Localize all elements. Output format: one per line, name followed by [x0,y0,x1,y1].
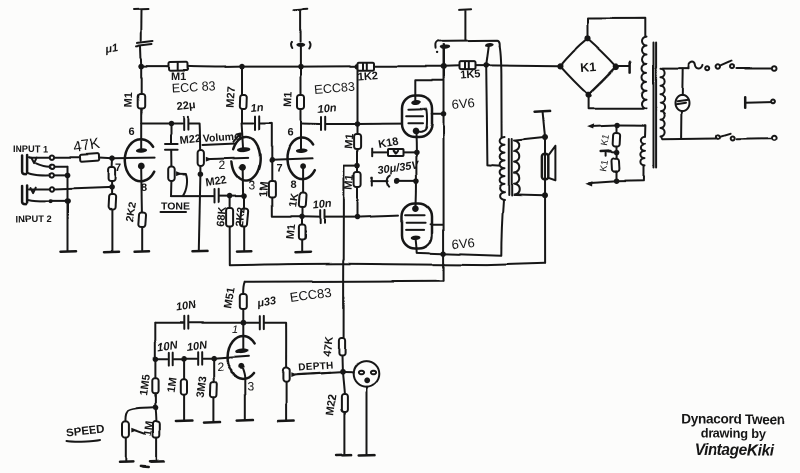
speed wire curve [125,408,155,422]
heater feed arrow top [590,125,617,126]
V1b grid [207,158,248,159]
resistor M1 (V2a plate) [300,67,302,95]
6V6#1 plate wire [415,80,443,101]
wire cap to volume pot [189,124,200,151]
node osc plate [241,320,247,326]
V2b anode [242,325,244,349]
capacitor M22 (tone) [215,189,219,202]
jack 2 [23,185,28,204]
node depth/XLR [340,369,346,375]
transformer core [654,43,657,168]
resistor M1 (below 1K) [301,217,303,225]
triode V2b envelope [228,336,255,379]
resistor 1M speed [155,408,158,422]
node K18 right [414,150,420,156]
ground bar [61,250,77,253]
heater top lead [617,125,645,136]
V2a grid [272,159,313,160]
bridge top lead [588,18,645,36]
resistor 47K trem [339,338,345,356]
capacitor 10n (top) [301,123,320,126]
wire depth pot bottom [285,382,287,419]
node hum center [614,149,620,155]
feedthrough connector [296,42,305,46]
node osc grid [211,356,217,362]
node divider mid [355,163,361,169]
svg-text:3: 3 [249,178,256,192]
svg-text:68K: 68K [215,206,229,227]
triode V1b envelope [232,137,260,181]
6V6#2 anode cap [413,205,420,212]
ground bar [204,421,220,424]
ground return vertical [67,166,69,250]
jack2 sleeve contact [48,199,52,203]
wire bus segment [188,65,358,68]
resistor 1K5 [459,62,475,70]
wire 10n to 6V6#2 grid [326,216,399,218]
wire divider to trem line [344,166,358,338]
svg-text:8: 8 [141,182,147,194]
node decouple [355,121,361,127]
resistor K1 hum lower [616,152,618,158]
ground bar [237,250,251,253]
node 10n lower [355,214,361,220]
capacitor 1n [242,123,254,125]
svg-text:INPUT 1: INPUT 1 [13,144,49,154]
V1b anode [242,124,243,148]
svg-text:ECC83: ECC83 [289,284,333,305]
ground bar [193,250,208,253]
bridge bottom lead [588,97,643,109]
resistor 2K2 (V1a cathode) [138,212,146,227]
screen feed vertical [443,45,445,281]
svg-text:10N: 10N [186,339,209,354]
OT core [509,139,512,195]
OT secondary winding [514,141,519,195]
OT primary bottom lead [501,200,503,256]
mains switch upper [716,65,720,69]
node V1a plate [168,121,174,127]
jack1 tip contact [50,155,54,159]
speed pot bottom [125,438,127,461]
solder blob left [440,44,450,49]
node V1b cathode [241,193,247,199]
6V6#2 cathode [411,235,421,240]
svg-text:3M3: 3M3 [195,376,210,399]
capacitor 10N phase 1 [155,358,167,360]
OT secondary leads [516,137,546,195]
svg-text:K1: K1 [598,159,611,172]
heater bottom lead [617,165,644,180]
svg-text:M1: M1 [283,91,296,107]
svg-text:10N: 10N [175,299,198,314]
6V6#1 cathode wire [415,133,417,152]
XLR left lead [345,371,354,373]
node 30μ right [414,178,420,184]
svg-text:1M: 1M [258,181,271,197]
pilot lamp [675,95,689,111]
V2b grid [214,356,249,358]
wire bus segment [475,65,486,67]
V1a grid [112,157,155,160]
resistor 1M phase [183,359,185,380]
bridge rectifier K1 [560,39,616,95]
svg-text:M1: M1 [343,174,356,190]
XLR socket [353,361,379,387]
6V6#1 grid structure [406,109,427,132]
pentode 6V6 no.1 envelope [402,96,432,138]
svg-text:30μ/35V: 30μ/35V [377,159,421,177]
resistor M1 (divider upper) [357,124,359,134]
wire cathode chain [415,152,417,206]
fuse [688,62,703,69]
HT bracket [435,41,499,49]
6V6#2 screen stub [431,223,444,225]
svg-text:M1: M1 [343,133,356,149]
wire cap to tone pot [170,150,172,166]
wire volume pot bottom [199,166,201,174]
wire 10N to plate node [189,322,243,324]
ground rail row1 [230,227,545,266]
svg-text:22μ: 22μ [176,99,196,113]
node mixer [109,184,115,190]
svg-text:VintageKiki: VintageKiki [695,442,776,459]
node 68K top [227,193,233,199]
hum center ground T [608,150,617,153]
svg-text:3: 3 [247,380,254,394]
wire bus to bridge [486,64,557,67]
wire plate node down [170,124,172,144]
resistor 3M3 [213,359,215,382]
6V6#1 anode cap [411,100,421,106]
mains switch lower [716,135,720,139]
OT primary winding [500,137,505,200]
6V6#2 grid structure [406,215,426,230]
depth wiper wire [295,372,343,375]
node bus-left [138,64,144,70]
wire volume to ground [199,174,201,250]
svg-text:1K: 1K [287,193,301,209]
svg-text:M27: M27 [225,86,238,108]
wire 10n to 6V6 grid [326,123,401,125]
wire 1n to V2a grid [260,123,272,160]
resistor M1 (series) [169,62,188,71]
speaker [542,154,548,179]
potentiometer DEPTH [283,368,289,382]
chassis cap terminal T3 [459,9,472,41]
jack1 sleeve contact [50,173,54,177]
svg-text:1M: 1M [142,421,156,438]
ground bar [278,419,294,422]
svg-text:SPEED: SPEED [65,424,105,440]
wire μ33 to depth pot [265,323,286,368]
potentiometer TONE [168,167,175,182]
svg-text:2K2: 2K2 [234,206,248,227]
jack 1 [23,155,28,174]
svg-text:6V6: 6V6 [451,95,475,112]
6V6#1 cathode [413,128,420,135]
svg-text:M22: M22 [324,394,339,417]
chassis cap terminal T1 [134,9,149,41]
node speed [153,405,159,411]
mains upper lead [663,68,689,70]
svg-text:2: 2 [219,158,226,172]
jack2 tip contact [50,187,54,191]
heater feed arrow bottom [590,181,617,183]
ground dash mid [141,465,149,468]
svg-text:M1: M1 [123,91,136,107]
resistor 1K (V2a cathode) [299,193,307,208]
speaker wire [544,140,546,264]
ground bar [176,419,193,422]
potentiometer SPEED [122,422,129,438]
svg-text:TONE: TONE [161,200,190,212]
wire row2 to M51 [243,282,245,294]
wire osc grid chain vertical [154,323,156,359]
svg-text:Dynacord Tween: Dynacord Tween [681,412,785,427]
node speaker bottom [542,192,548,198]
capacitor 30μ/35V [371,178,373,186]
svg-text:drawing by: drawing by [701,426,768,441]
svg-text:2K2: 2K2 [124,201,139,223]
6V6#1 screen stub [432,113,444,115]
capacitor 10n (lower) [302,216,319,218]
chassis cap terminal T2 [294,9,307,41]
svg-text:1n: 1n [250,102,264,115]
screen supply drop to OT tap [486,65,499,165]
6V6#2 plate wire [416,240,501,256]
wire bus segment [141,66,169,68]
V2a anode [300,124,302,150]
resistor 1M (V2a grid) [271,160,273,181]
node speaker top [542,135,548,141]
potentiometer VOLUME [198,150,204,166]
node M27 top [239,64,245,70]
node M1v top [298,64,304,70]
svg-text:47K: 47K [321,336,336,358]
svg-text:1: 1 [232,324,238,336]
resistor M27 [241,67,243,95]
svg-text:μ1: μ1 [103,42,119,56]
OT primary top lead [500,47,502,137]
node plate tee [441,251,447,257]
node heater top [614,122,620,128]
svg-text:10n: 10n [317,102,337,116]
node phase mid [181,356,187,362]
svg-text:M51: M51 [222,286,238,309]
pentode 6V6 no.2 envelope [402,204,432,249]
node grid chain left [153,356,159,362]
V1a cathode [138,163,145,170]
svg-text:1K2: 1K2 [357,70,378,83]
ground bar [359,453,375,456]
svg-text:INPUT 2: INPUT 2 [16,214,52,224]
resistor M51 [240,294,247,309]
node cathode net [299,214,305,220]
svg-text:6: 6 [129,126,135,138]
node B+ center [441,64,447,70]
speaker ground T [535,110,550,113]
svg-text:7: 7 [276,163,282,175]
svg-text:M1: M1 [285,224,299,240]
wire bus segment [374,65,444,67]
node heater bottom [614,178,620,184]
svg-text:1K5: 1K5 [459,69,480,82]
wire cathode bus V1b [171,195,213,197]
svg-text:M22: M22 [179,133,202,147]
solder blob right [484,43,494,48]
svg-text:1M5: 1M5 [138,374,153,397]
bridge + terminal [619,65,629,67]
triode V2a envelope [287,138,314,180]
wire connector to bus [300,47,302,67]
svg-text:M22: M22 [205,174,228,189]
node screens [483,63,489,69]
ground bar [237,419,253,422]
svg-text:7: 7 [115,162,121,174]
resistor M22 trem [343,372,345,394]
heater winding [641,136,645,165]
wire V1a plate node [141,123,182,125]
mains transformer HT winding [642,37,647,109]
resistor 1K2 [358,62,375,70]
stray dot [436,51,438,53]
svg-text:ECC83: ECC83 [314,80,355,97]
V2b cathode [238,363,244,369]
capacitor 22μ [184,117,188,130]
grid stopper pair upper [111,158,113,167]
wire 2K2 to ground [243,227,245,251]
jack1 ring contact [50,164,54,168]
svg-text:10N: 10N [157,339,180,354]
resistor M1 (divider lower) [357,166,359,172]
svg-text:μ33: μ33 [255,295,277,310]
svg-text:ECC 83: ECC 83 [171,79,215,95]
svg-text:6V6: 6V6 [451,235,475,252]
V2a cathode [300,164,306,170]
node V2a grid [269,157,275,163]
ground bar [120,461,134,464]
ground bar [150,460,164,463]
ground bar [337,453,352,456]
svg-text:6: 6 [288,127,294,139]
XLR bottom lead [366,386,368,454]
ground bar [135,250,150,253]
capacitor M22 coupling [165,144,178,150]
svg-text:1M: 1M [166,377,180,394]
capacitor 10N feedback [155,322,182,324]
tone wiper wire [183,174,187,196]
wire tone pot bottom [170,181,172,196]
svg-text:K1: K1 [599,133,612,146]
node 1K2 left [355,63,361,69]
resistor K18 [371,149,373,157]
wire bus drop [357,66,359,124]
svg-text:10n: 10n [312,198,332,212]
V1b cathode [239,164,246,171]
wire cap to cathode node [220,195,244,197]
capacitor μ1 [137,42,154,47]
resistor M1 (V1a plate) [140,67,142,94]
mains lower lead [662,138,717,140]
svg-text:K1: K1 [580,60,597,75]
voltage selector bar [744,97,747,107]
resistor 1M5 [154,359,156,379]
resistor 2K2 (V1b) [243,196,245,208]
resistor K1 hum upper [616,125,618,133]
capacitor μ33 [243,322,258,324]
ground bar [296,250,311,253]
triode V1a envelope [125,139,154,181]
capacitor 10N phase 2 [184,358,196,360]
svg-text:8: 8 [290,180,296,192]
mains primary winding [661,69,665,137]
wire cap to bus [140,47,143,67]
wire bus segment [444,65,460,67]
resistor 68K [229,196,231,208]
grid stopper pair lower [111,187,113,194]
ground bar [104,250,119,253]
plate rail row2 [245,281,444,282]
wire blob to screens [486,47,489,66]
svg-text:2: 2 [217,360,224,374]
node volume bottom [198,171,204,177]
node grid V1a [109,155,115,161]
V1a anode [140,124,142,149]
